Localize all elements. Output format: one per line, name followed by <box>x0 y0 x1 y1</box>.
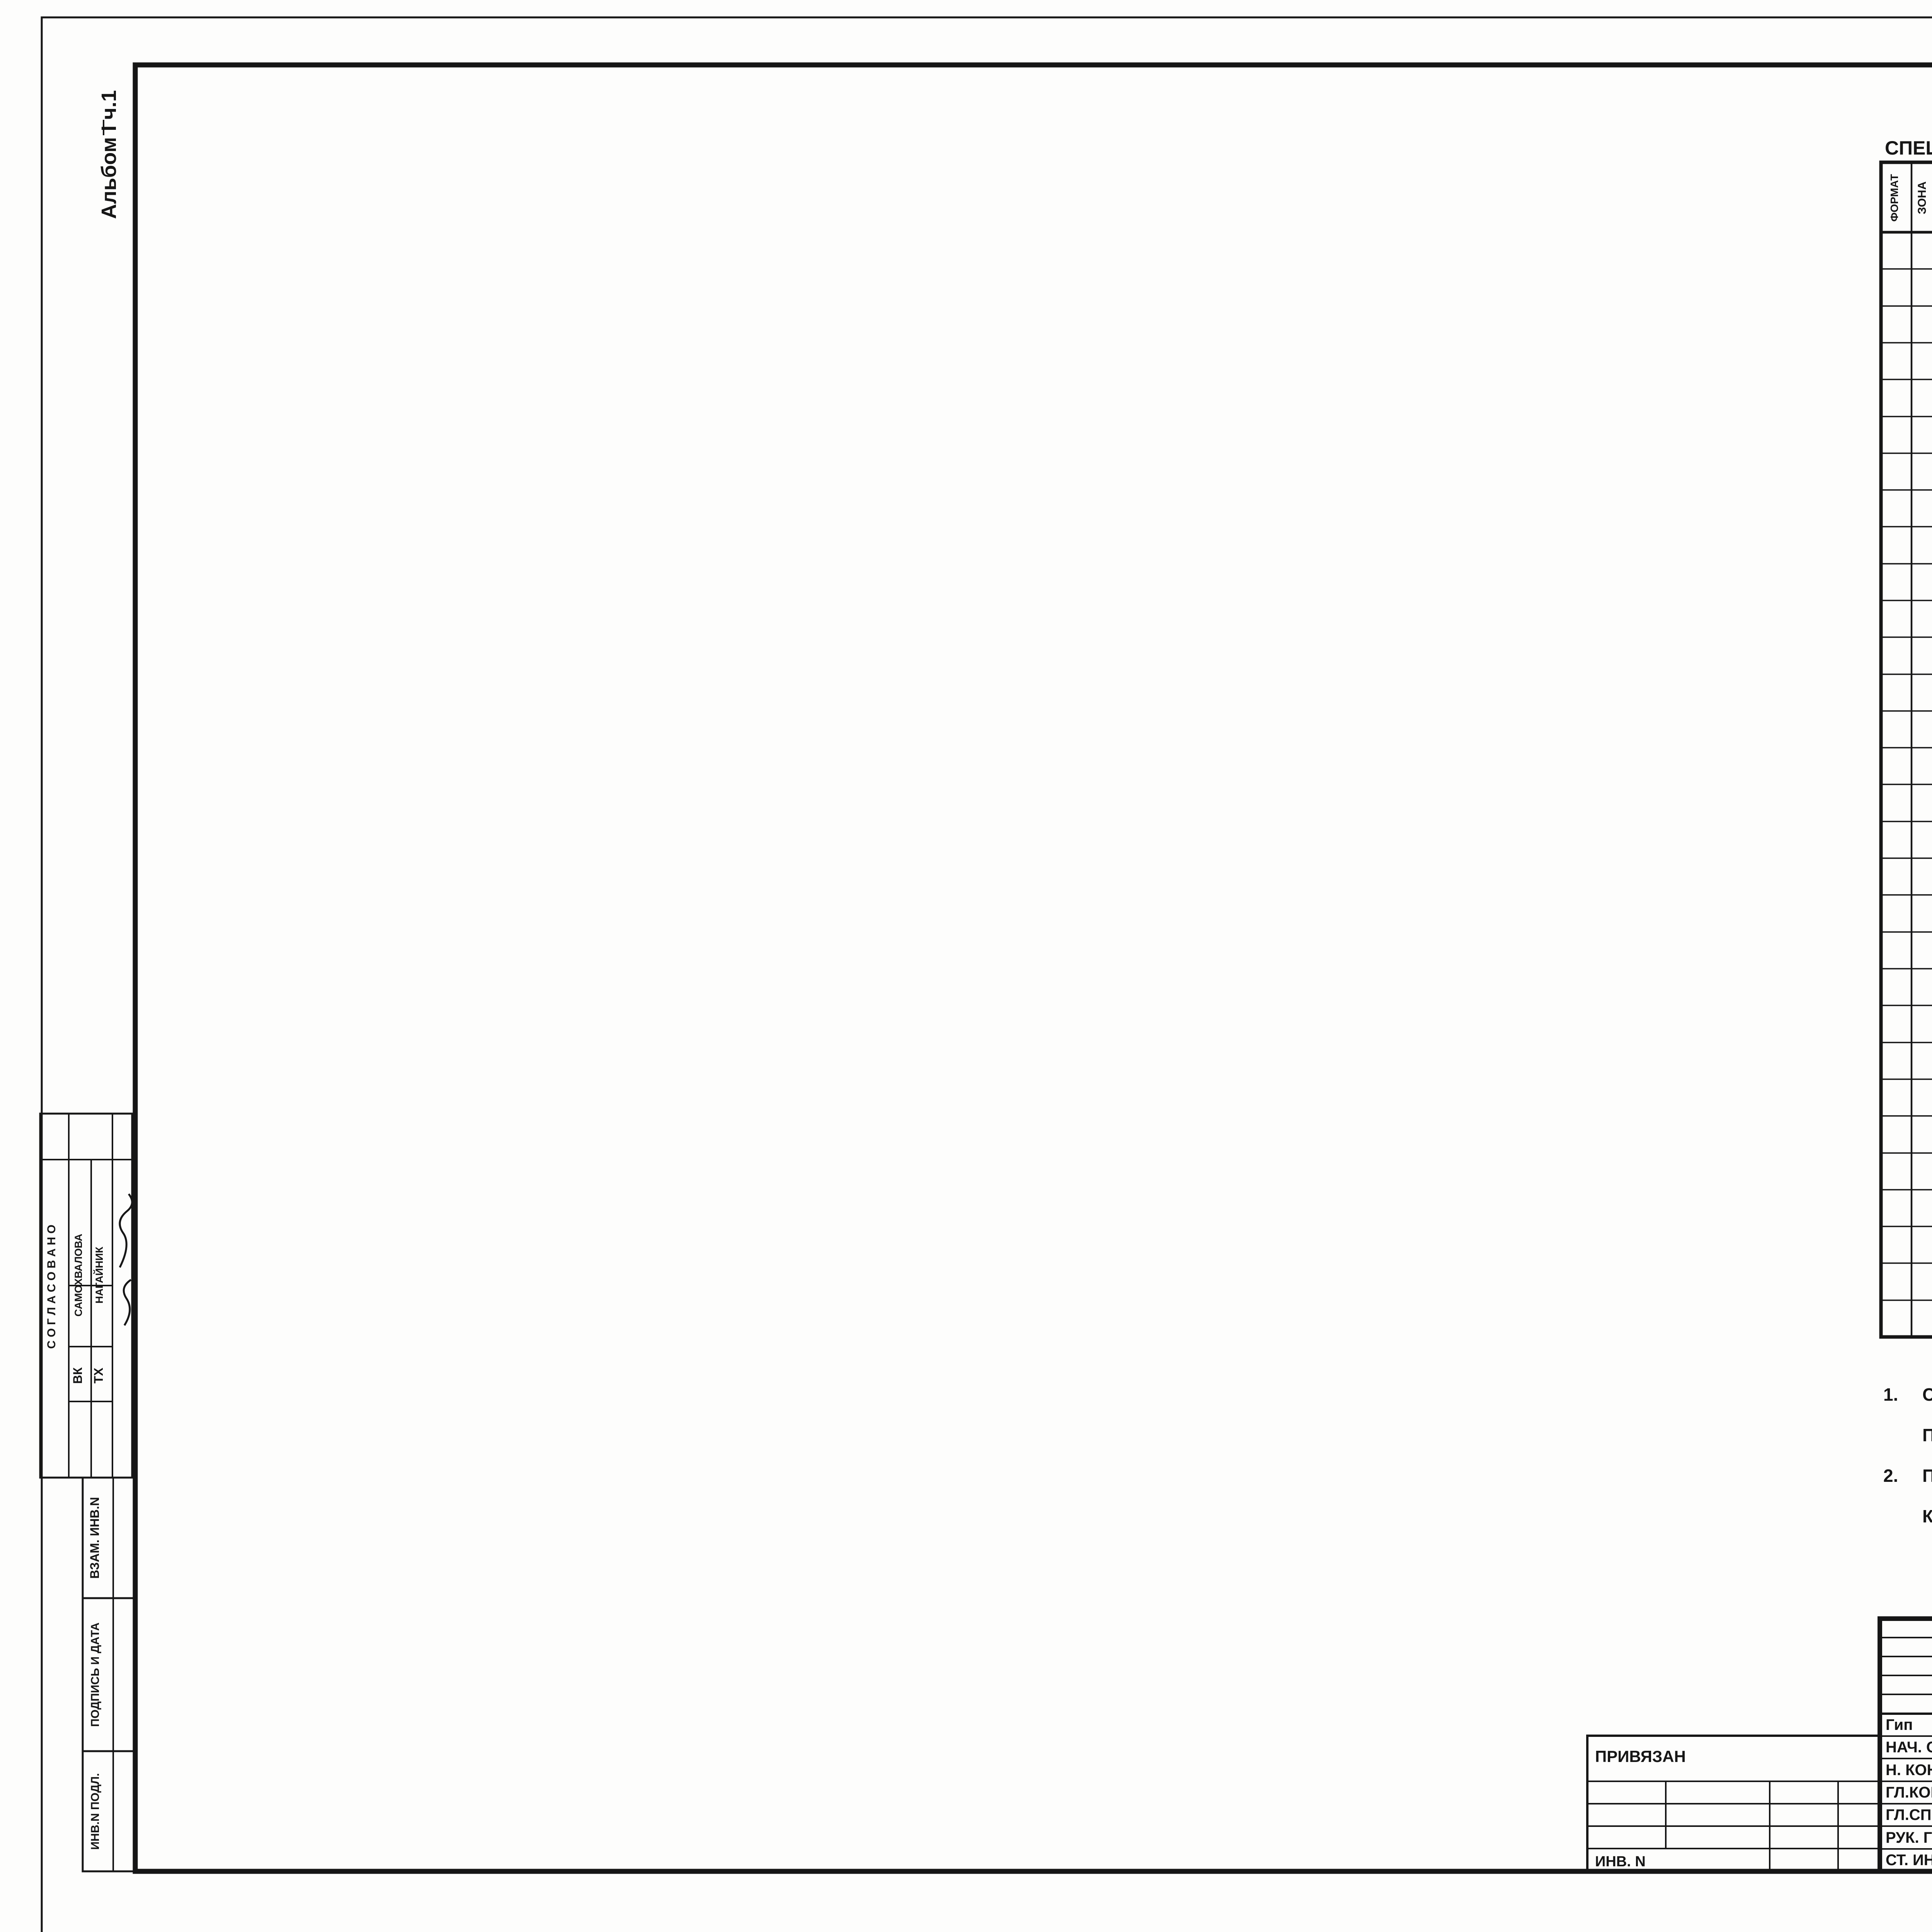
svg-text:КЛАССА В15 НА МЕЛКОЗЕРНИСТОМ: КЛАССА В15 НА МЕЛКОЗЕРНИСТОМ ЗАПОЛНИТЕЛЕ… <box>1922 1506 1932 1526</box>
svg-text:ФОРМАТ: ФОРМАТ <box>1888 174 1900 221</box>
svg-text:ВК: ВК <box>71 1367 85 1384</box>
annex table <box>1587 1736 1880 1871</box>
svg-text:РУК. ГР.: РУК. ГР. <box>1886 1829 1932 1846</box>
signature-date stamp block <box>83 1598 135 1751</box>
svg-text:НАЧ. ОТД.: НАЧ. ОТД. <box>1886 1739 1932 1756</box>
inventory stamp block <box>83 1751 135 1871</box>
svg-text:ПОД ОБОРУДОВАНИЕ СМ. ЛИСТ 7: ПОД ОБОРУДОВАНИЕ СМ. ЛИСТ 7. <box>1922 1425 1932 1445</box>
svg-text:С О Г Л А С О В А Н О: С О Г Л А С О В А Н О <box>45 1225 58 1349</box>
svg-text:ГЛ.СПЕЦ.: ГЛ.СПЕЦ. <box>1886 1806 1932 1823</box>
svg-text:Н. КОНТР.: Н. КОНТР. <box>1886 1762 1932 1779</box>
svg-text:ПОДПИСЬ И ДАТА: ПОДПИСЬ И ДАТА <box>89 1622 102 1727</box>
svg-text:ГЛ.КОНСТ.: ГЛ.КОНСТ. <box>1886 1784 1932 1801</box>
svg-text:ВЗАМ. ИНВ.N: ВЗАМ. ИНВ.N <box>88 1497 102 1579</box>
changes stamp block <box>83 1478 135 1598</box>
svg-text:ЗОНА: ЗОНА <box>1916 181 1929 214</box>
svg-text:Альбом I ч.1: Альбом I ч.1 <box>97 90 121 219</box>
svg-text:2.: 2. <box>1883 1466 1898 1486</box>
svg-text:ИНВ. N: ИНВ. N <box>1595 1854 1646 1870</box>
specification table <box>1881 162 1932 1337</box>
svg-text:САМОХВАЛОВА: САМОХВАЛОВА <box>73 1234 84 1316</box>
svg-text:СТ. ИНЖ.: СТ. ИНЖ. <box>1886 1852 1932 1869</box>
svg-text:Гип: Гип <box>1886 1716 1913 1733</box>
approval stamp block <box>40 1114 132 1478</box>
svg-text:ПОСЛЕ УСТАНОВКИ БОЛТОВ КОЛО: ПОСЛЕ УСТАНОВКИ БОЛТОВ КОЛОДЦЫ В ФУНДАМЕ… <box>1922 1466 1932 1486</box>
svg-text:1.: 1. <box>1883 1384 1898 1405</box>
svg-text:СХЕМУ РАСПОЛОЖЕНИЯ КАНАЛОВ,: СХЕМУ РАСПОЛОЖЕНИЯ КАНАЛОВ, ПРИЯМКОВ, КО… <box>1922 1384 1932 1405</box>
svg-text:ТХ: ТХ <box>92 1367 105 1384</box>
svg-text:ИНВ.N ПОДЛ.: ИНВ.N ПОДЛ. <box>89 1773 102 1850</box>
svg-text:СПЕЦИФИКАЦИЯ НА МОНОЛИТНЫЕ: СПЕЦИФИКАЦИЯ НА МОНОЛИТНЫЕ ФУНДАМЕНТЫ ПО… <box>1885 137 1932 159</box>
svg-text:НАГАЙНИК: НАГАЙНИК <box>93 1247 105 1303</box>
svg-text:ПРИВЯЗАН: ПРИВЯЗАН <box>1595 1747 1686 1765</box>
title block <box>1880 1619 1932 1871</box>
